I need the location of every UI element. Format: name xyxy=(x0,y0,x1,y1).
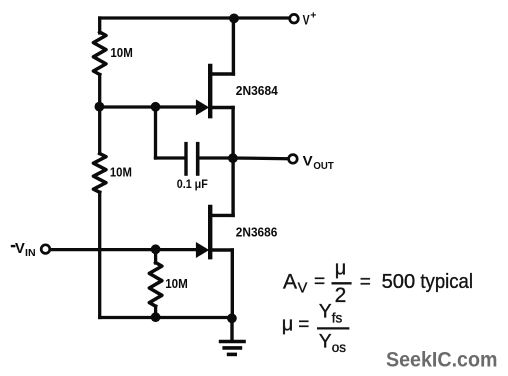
svg-text:fs: fs xyxy=(332,311,343,326)
wire left rail upper segment xyxy=(98,18,101,33)
ground xyxy=(219,318,246,354)
junction node VOUT xyxy=(228,153,238,163)
wire left rail lower segment xyxy=(98,192,101,317)
terminal circle VOUT xyxy=(289,155,298,164)
wire top rail xyxy=(100,16,289,19)
Q2 drain lead xyxy=(231,158,234,215)
svg-text:+: + xyxy=(310,10,316,22)
wire VIN xyxy=(51,248,198,251)
Q2 source lead xyxy=(231,250,234,318)
terminal circle V+ xyxy=(290,14,299,23)
junction dot gate line at left rail xyxy=(95,102,105,112)
svg-text:typical: typical xyxy=(420,270,473,293)
svg-text:2: 2 xyxy=(335,284,347,307)
wire R3 bottom lead xyxy=(154,306,157,317)
svg-text:Y: Y xyxy=(319,332,332,353)
capacitor C1 right plate xyxy=(196,142,200,176)
svg-text:A: A xyxy=(283,270,297,293)
svg-text:Y: Y xyxy=(319,302,332,323)
svg-text:V: V xyxy=(303,12,310,28)
svg-text:=: = xyxy=(298,315,309,336)
svg-text:10M: 10M xyxy=(110,165,132,180)
svg-text:V: V xyxy=(298,280,308,296)
junction dot bottom rail at R3 xyxy=(151,312,161,322)
svg-text:μ: μ xyxy=(335,258,347,280)
svg-text:os: os xyxy=(332,340,347,355)
Q1 source lead xyxy=(231,108,234,159)
Q2 drain tap xyxy=(210,214,233,217)
wire R3 top lead xyxy=(154,250,157,263)
Q1 channel bar xyxy=(208,66,212,116)
wire left rail mid segment xyxy=(98,75,101,154)
transistor Q2 2N3686 xyxy=(210,158,233,318)
wire capacitor branch horizontal xyxy=(156,156,185,159)
Q1 drain tap xyxy=(210,72,233,75)
wire bottom rail xyxy=(100,316,232,319)
svg-text:SeekIC.com: SeekIC.com xyxy=(386,348,498,372)
label VIN xyxy=(11,245,16,247)
svg-text:V: V xyxy=(15,241,25,257)
svg-text:μ: μ xyxy=(282,313,294,335)
equation AV = mu/2 = 500 typical xyxy=(282,258,473,355)
Q2 gate arrowhead xyxy=(196,242,209,258)
Q2 channel bar xyxy=(208,207,212,257)
svg-text:500: 500 xyxy=(382,270,416,293)
svg-text:V: V xyxy=(303,153,314,169)
svg-text:IN: IN xyxy=(25,247,36,259)
svg-text:=: = xyxy=(360,272,371,293)
junction dot bottom rail at ground xyxy=(227,313,237,323)
svg-text:2N3686: 2N3686 xyxy=(236,224,277,239)
svg-text:0.1 μF: 0.1 μF xyxy=(177,177,208,191)
terminal circle VIN xyxy=(41,245,50,254)
Q1 drain lead xyxy=(232,18,235,74)
junction dot VIN line at R3 xyxy=(151,244,161,254)
junction dot gate line at capacitor branch xyxy=(151,102,161,112)
wire gate line Q1 xyxy=(100,105,198,108)
wire capacitor branch vertical xyxy=(154,107,157,158)
resistor R2 xyxy=(93,154,106,193)
svg-text:2N3684: 2N3684 xyxy=(236,83,279,98)
svg-text:=: = xyxy=(314,272,325,293)
capacitor C1 left plate xyxy=(184,142,187,176)
svg-text:OUT: OUT xyxy=(313,161,333,172)
svg-text:10M: 10M xyxy=(110,45,132,60)
Q1 source tap xyxy=(210,106,233,109)
resistor R3 xyxy=(149,263,162,307)
transistor Q1 2N3684 xyxy=(210,18,233,158)
Q2 source tap xyxy=(210,248,232,251)
wire capacitor to VOUT node xyxy=(200,156,233,159)
resistor R1 xyxy=(93,32,106,75)
Q1 gate arrowhead xyxy=(196,99,209,115)
svg-text:10M: 10M xyxy=(165,276,188,291)
wire VOUT xyxy=(233,156,288,160)
junction dot top rail xyxy=(229,14,239,24)
